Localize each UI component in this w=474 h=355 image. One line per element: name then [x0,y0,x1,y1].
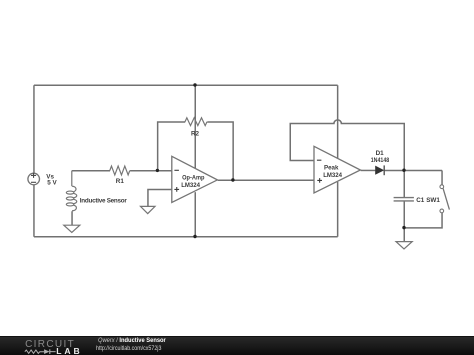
wire inductor bottom to ground [71,211,73,225]
svg-text:Peak: Peak [324,164,339,171]
junction dot R1/R2 node [156,169,159,172]
wire U1 output to U2 plus input [218,179,315,181]
junction dot bottom rail / U1 V- [193,235,196,238]
inductor L1 (Inductive Sensor) [66,171,76,211]
ground under inductor [64,225,80,232]
wire bottom rail [34,236,338,238]
wire left rail bottom (Vs bottom) [33,185,35,237]
wire diode to switch branch [384,169,442,171]
wire switch bottom lead [404,213,442,228]
capacitor C1 [394,198,414,201]
svg-text:http://circuitlab.com/cx572j3: http://circuitlab.com/cx572j3 [96,345,162,352]
svg-text:Qwerx / Inductive Sensor: Qwerx / Inductive Sensor [98,337,166,344]
wire left rail top (Vs top) [33,85,35,173]
wire R1 right to U1 minus input [130,170,172,172]
junction dot cap/switch bottom node [402,226,405,229]
op-amp U2 (Peak) [314,146,360,193]
footer bar [0,336,474,355]
svg-text:R2: R2 [191,130,200,137]
junction dot R2/output node [231,178,234,181]
svg-text:C1: C1 [416,197,425,204]
wire V+ pin op-amp U2 [337,85,339,158]
svg-text:1N4148: 1N4148 [371,157,390,164]
wire U1 plus input to ground [148,190,172,207]
wire to right ground [403,228,405,242]
svg-text:LAB: LAB [56,346,82,355]
ground right [396,242,412,249]
wire cap top lead [403,170,405,197]
wire U2 output to diode [361,169,376,171]
svg-text:LM324: LM324 [323,172,342,179]
svg-text:Op-Amp: Op-Amp [182,175,204,182]
svg-text:SW1: SW1 [426,197,440,204]
op-amp U1 [172,156,218,202]
logo resistor glyph [25,350,44,353]
wire R2 branch right [207,122,233,180]
voltage source Vs [28,173,40,185]
wire switch top lead [441,170,443,185]
resistor R2 [185,118,207,126]
logo diode glyph [44,349,56,354]
wire V- pin op-amp U1 [194,192,196,237]
switch SW1 [440,185,449,213]
svg-text:Inductive Sensor: Inductive Sensor [80,197,128,204]
junction dot diode output node [402,169,405,172]
svg-text:R1: R1 [116,178,125,185]
wire top rail [34,84,338,86]
svg-text:LM324: LM324 [181,182,200,189]
wire V- pin op-amp U2 [337,182,339,237]
wire R2 branch left [158,122,186,171]
junction dot top rail / U1 V+ [193,83,196,86]
svg-text:5 V: 5 V [47,180,57,187]
wire cap bottom lead [403,201,405,228]
resistor R1 [110,166,130,175]
diode D1 [375,165,384,175]
ground at U1 plus input [141,206,156,213]
wire inductor top to R1 [72,170,110,172]
wire V+ pin op-amp U1 [194,85,196,168]
wire U2 feedback loop with hop [290,120,404,171]
